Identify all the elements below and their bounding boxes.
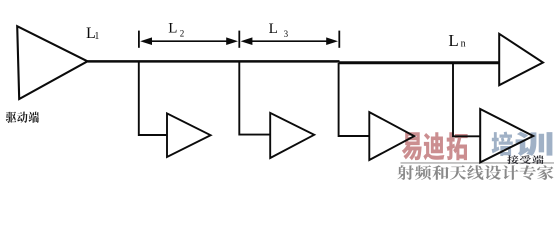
dimension tick at node D <box>338 31 340 48</box>
dimension tick at node B <box>138 31 140 48</box>
wire stub 2 drop <box>239 62 270 134</box>
svg-text:1: 1 <box>94 31 99 42</box>
wire bus segment 1 <box>88 60 340 63</box>
watermark logo 培训 (blue) <box>492 132 553 156</box>
receiver buffer U5 <box>480 109 533 162</box>
watermark logo 易迪拓 (red) <box>402 132 468 160</box>
watermark rule <box>401 162 554 164</box>
receiver buffer U6 (end of line) <box>499 34 543 85</box>
svg-text:3: 3 <box>284 29 289 39</box>
watermark tagline 射频和天线设计专家 (gray) <box>397 165 554 181</box>
wire stub 1 drop <box>139 62 167 135</box>
label 接受端 (receiving end) <box>507 155 543 164</box>
svg-text:n: n <box>461 38 466 49</box>
receiver buffer U3 <box>270 113 314 158</box>
driver buffer U1 <box>17 26 87 99</box>
dimension arrow L3 span <box>248 40 331 42</box>
dimension tick at node C <box>238 31 240 48</box>
svg-text:L: L <box>448 31 458 50</box>
receiver buffer U2 <box>167 113 211 157</box>
wire stub 3 drop <box>339 63 370 136</box>
wire bus segment 2 <box>339 61 500 64</box>
svg-text:2: 2 <box>180 28 185 38</box>
label 驱动端 (driver end) <box>6 112 39 123</box>
svg-text:L: L <box>269 21 278 37</box>
receiver buffer U4 <box>369 112 414 160</box>
svg-text:L: L <box>168 20 177 36</box>
wire stub 4 drop <box>453 63 480 136</box>
dimension arrow L2 span <box>147 40 231 42</box>
